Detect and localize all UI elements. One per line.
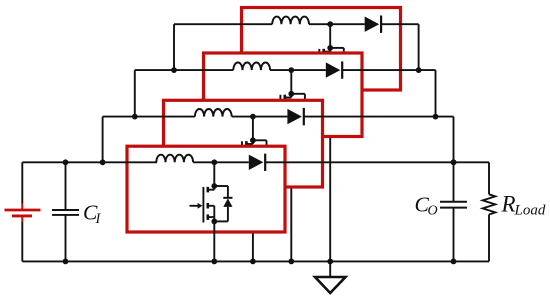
wire drain phase 1 xyxy=(213,162,215,186)
capacitor C_O xyxy=(440,162,467,264)
wire switch node to diode phase 1 xyxy=(214,161,249,163)
body diode of Q4 xyxy=(327,45,348,86)
inductor L3 xyxy=(233,62,270,70)
input tee dot on rail xyxy=(100,159,106,165)
diode D1 xyxy=(249,154,265,171)
mosfet Q2 xyxy=(228,140,253,177)
input tee dot phase 2 row xyxy=(132,114,138,120)
mosfet Q4 xyxy=(305,48,330,85)
wire source phase 2 to ground rail xyxy=(252,171,254,261)
rail junction dot phase 2 source xyxy=(250,259,256,265)
label R_Load xyxy=(501,192,546,219)
inductor L1 xyxy=(156,155,193,163)
switch node dot phase 2 xyxy=(250,114,256,120)
mosfet Q3 xyxy=(267,94,292,131)
phase 2 cell outline box xyxy=(164,100,323,187)
wire drain phase 3 xyxy=(290,70,292,94)
svg-text:R: R xyxy=(501,192,516,217)
wire diode output phase 3 xyxy=(342,70,435,117)
wire drain phase 4 xyxy=(329,24,331,48)
body diode of Q1 xyxy=(211,183,232,224)
wire input rail xyxy=(22,161,157,163)
wire ground rail xyxy=(22,260,489,262)
svg-text:I: I xyxy=(95,211,102,227)
mosfet Q1 xyxy=(190,186,215,223)
output tee junction dot phase 3 xyxy=(416,67,422,73)
wire input lead phase 2 xyxy=(103,116,195,118)
output tee junction dot phase 2 xyxy=(433,114,439,120)
wire diode output to load rail xyxy=(265,161,489,163)
wire input lead phase 3 xyxy=(135,69,234,71)
wire drain phase 2 xyxy=(252,117,254,141)
rail junction dot phase 3 source xyxy=(288,259,294,265)
diode D2 xyxy=(287,108,303,125)
inductor L4 xyxy=(272,17,309,25)
wire inductor to switch node phase 1 xyxy=(193,161,214,163)
wire diode output phase 4 xyxy=(381,24,419,70)
wire switch node to diode phase 4 xyxy=(330,23,365,25)
phase 3 cell outline box xyxy=(204,53,363,137)
body diode of Q2 xyxy=(250,137,271,178)
diode D3 xyxy=(326,61,342,78)
svg-text:O: O xyxy=(428,204,438,219)
wire switch node to diode phase 2 xyxy=(253,116,288,118)
svg-text:Load: Load xyxy=(514,203,546,219)
output tee junction dot phase 1 xyxy=(451,159,457,165)
wire input staircase vertical to phase 4 xyxy=(173,24,175,70)
phase 4 cell outline box xyxy=(242,8,401,91)
label C_I xyxy=(83,201,102,228)
switch node dot phase 3 xyxy=(288,67,294,73)
wire source phase 1 to ground rail xyxy=(213,217,215,261)
wire source phase 4 to ground rail xyxy=(329,79,331,261)
wire switch node to diode phase 3 xyxy=(291,69,326,71)
rail junction dot phase 1 source xyxy=(211,259,217,265)
wire inductor to switch node phase 3 xyxy=(270,69,291,71)
switch node dot phase 4 xyxy=(327,21,333,27)
wire inductor to switch node phase 4 xyxy=(309,23,330,25)
phase 1 cell outline box xyxy=(127,146,285,232)
label C_O xyxy=(415,193,438,219)
diode D4 xyxy=(365,16,381,33)
output junction dot at load rail xyxy=(451,159,457,165)
switch node dot phase 1 xyxy=(211,159,217,165)
inductor L2 xyxy=(195,109,232,117)
resistor R_Load xyxy=(483,162,496,261)
wire inductor to switch node phase 2 xyxy=(232,116,253,118)
wire input staircase vertical to phase 2 xyxy=(102,117,104,163)
body diode of Q3 xyxy=(288,91,309,132)
wire input staircase vertical to phase 3 xyxy=(134,70,136,117)
wire diode output phase 2 xyxy=(304,117,454,163)
capacitor C_I xyxy=(52,159,79,264)
ground symbol xyxy=(315,259,346,294)
wire input lead phase 4 xyxy=(174,23,272,25)
battery V_in xyxy=(5,162,41,261)
input tee dot phase 3 row xyxy=(171,67,177,73)
wire source phase 3 to ground rail xyxy=(290,125,292,262)
